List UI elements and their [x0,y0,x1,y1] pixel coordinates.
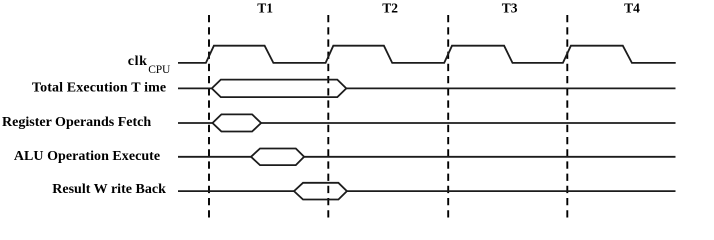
wire: Total Execution Time tail [346,87,675,89]
svg-text:Total Execution T ime: Total Execution T ime [32,81,166,96]
dashed gridline at start of T4 [566,15,568,218]
svg-text:T4: T4 [624,0,640,15]
wire: Total Execution Time lead-in [178,87,212,89]
svg-text:Result W rite Back: Result W rite Back [52,182,166,197]
dashed gridline at start of T3 [447,15,449,218]
bus hexagon: Result Write Back active window [294,183,347,200]
wire: Register Operands Fetch lead-in [178,122,213,124]
dashed gridline at start of T1 [208,15,210,218]
svg-text:T2: T2 [382,0,398,15]
wire: ALU Operation Execute lead-in [178,156,251,158]
wire: Result Write Back tail [347,190,676,192]
wire: Register Operands Fetch tail [261,122,675,124]
dashed gridline at start of T2 [327,15,329,218]
wire: Result Write Back lead-in [178,190,294,192]
svg-text:Register Operands Fetch: Register Operands Fetch [2,115,151,130]
svg-text:T3: T3 [502,0,518,15]
bus hexagon: Register Operands Fetch active window [213,114,262,131]
bus hexagon: Total Execution Time valid window [212,80,346,98]
svg-text:T1: T1 [257,0,273,15]
svg-text:clk: clk [128,54,147,69]
wire: ALU Operation Execute tail [304,156,675,158]
svg-text:CPU: CPU [148,64,171,76]
clock waveform clk_CPU [178,46,676,63]
bus hexagon: ALU Operation Execute active window [251,149,304,166]
svg-text:ALU Operation Execute: ALU Operation Execute [14,149,160,164]
